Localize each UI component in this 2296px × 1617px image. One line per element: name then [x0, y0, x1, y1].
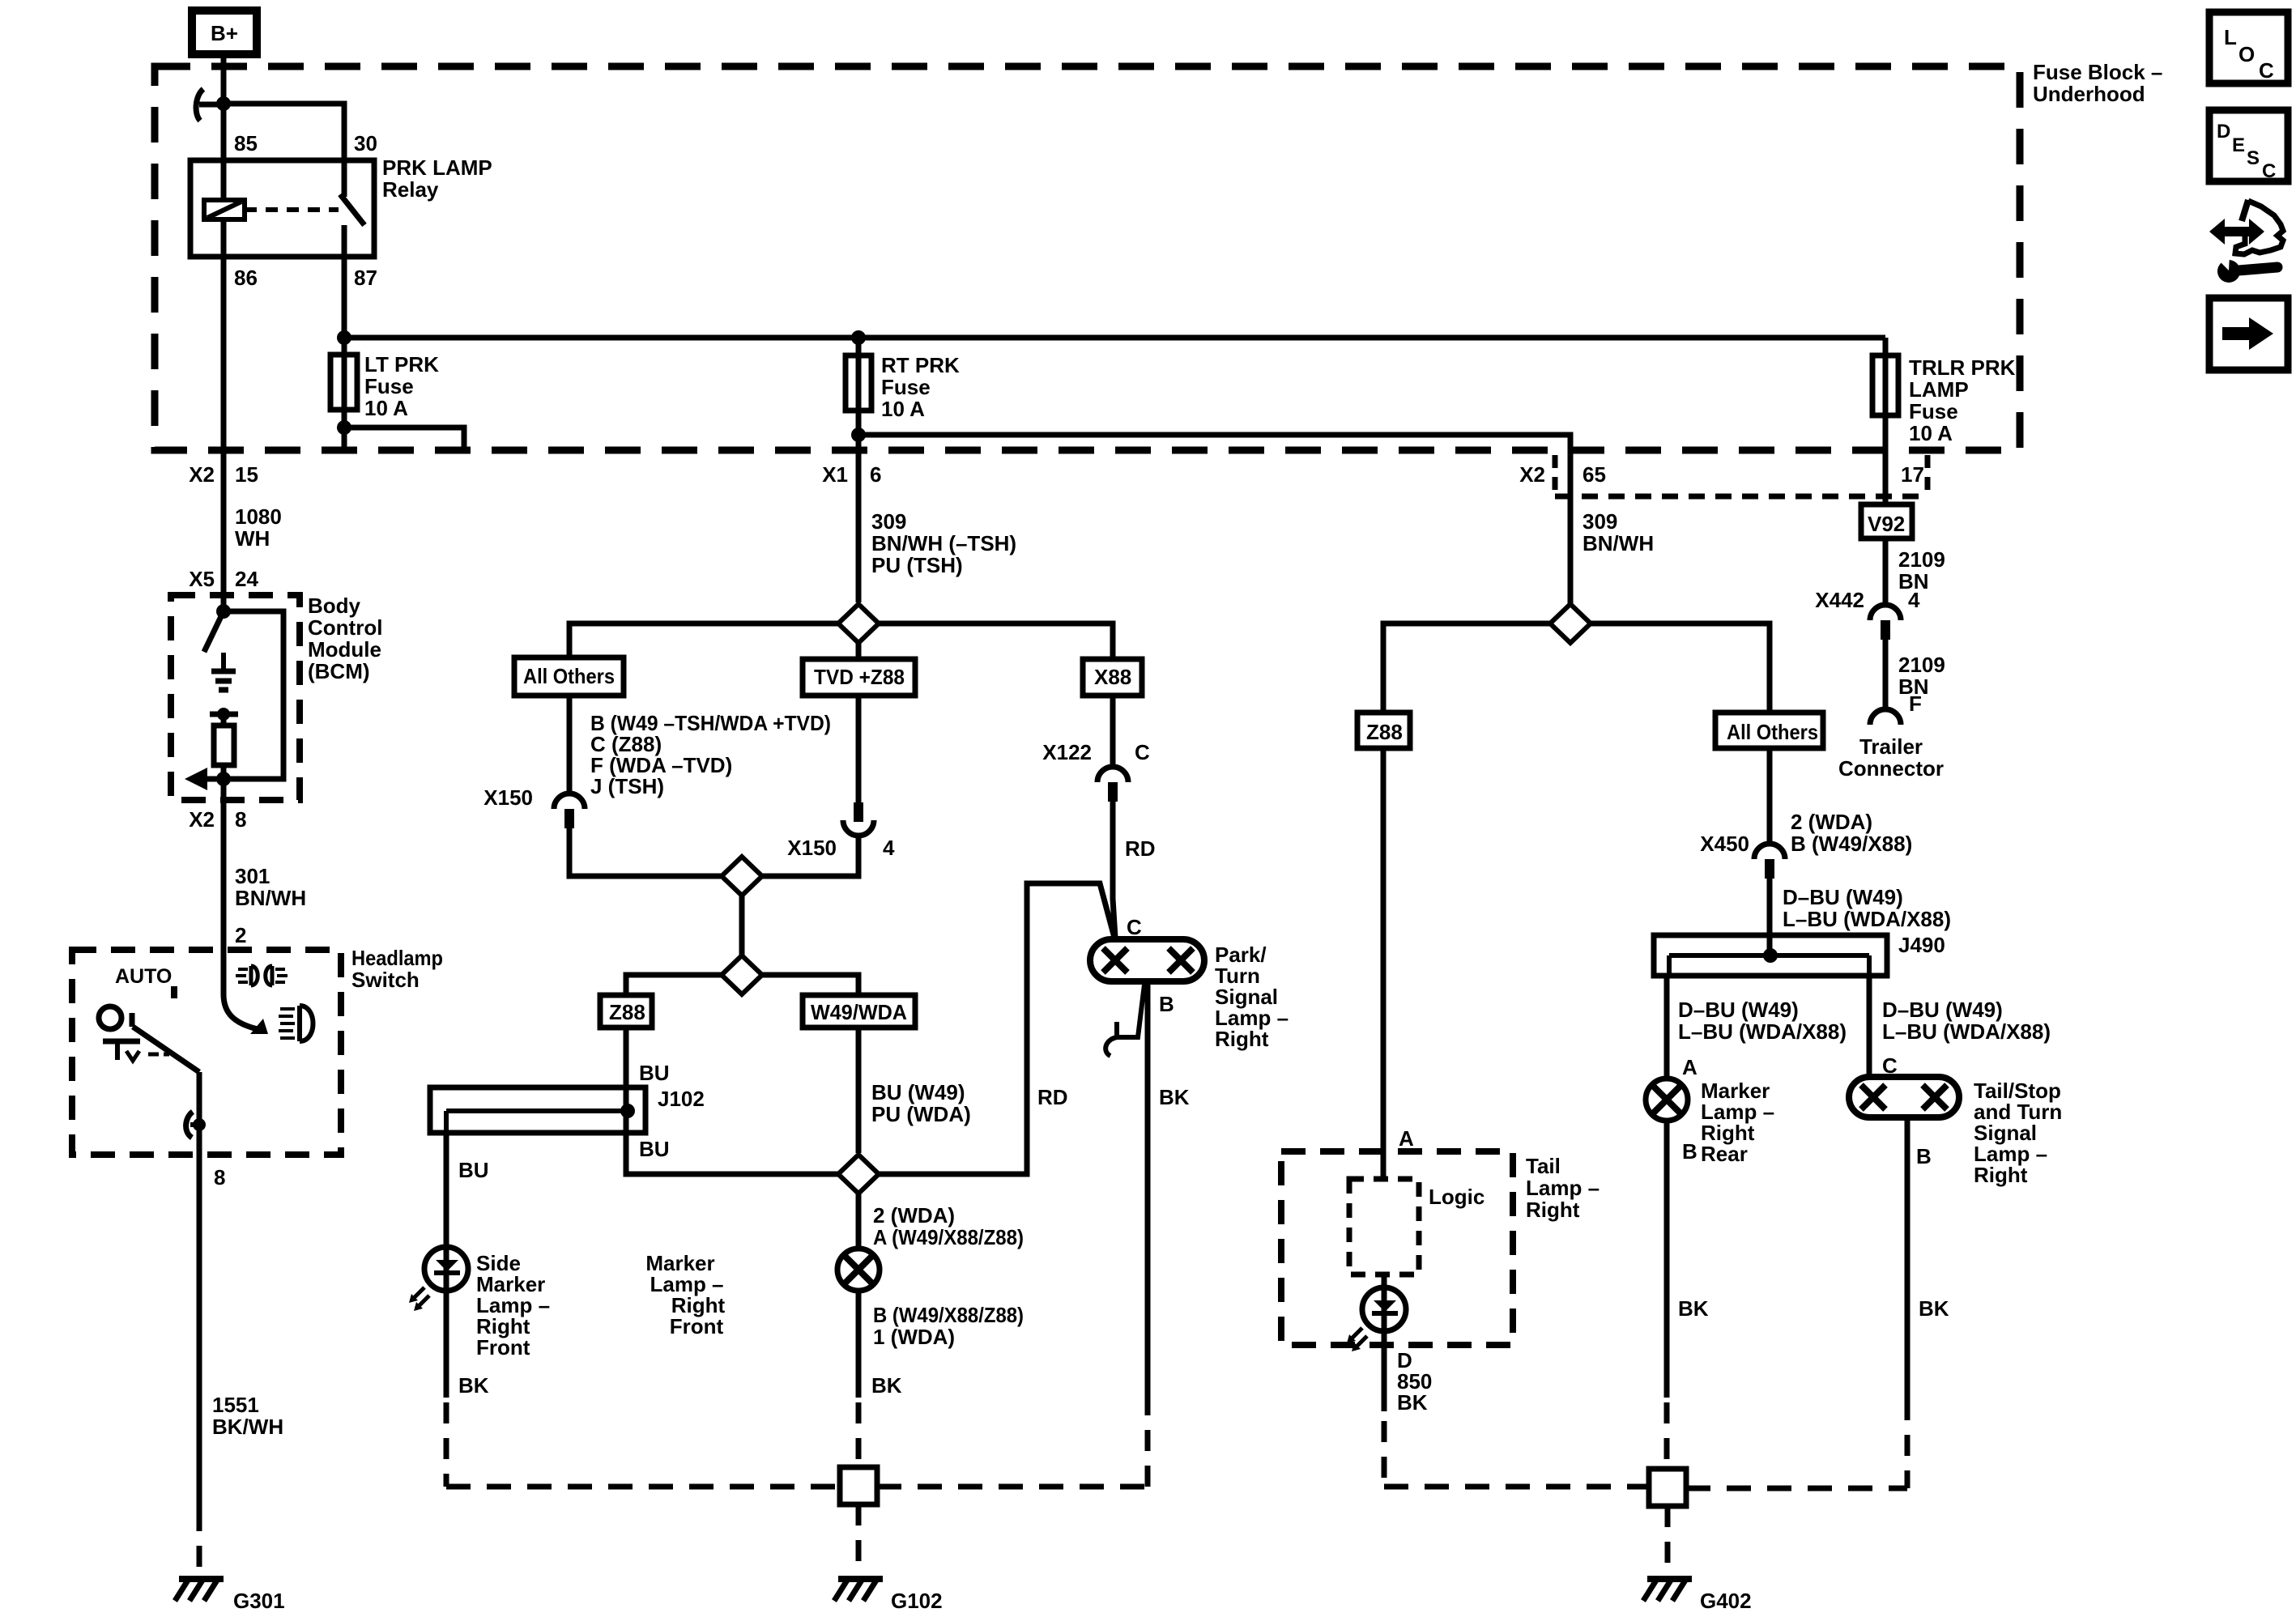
wire S4 to RD riser	[879, 883, 1114, 1174]
svg-text:Relay: Relay	[382, 177, 439, 202]
svg-text:Right: Right	[1215, 1027, 1269, 1051]
wire J102 right leg to S4	[626, 1133, 839, 1174]
park lamp feed bus wire	[344, 335, 1885, 341]
label RT PRK fuse	[881, 353, 960, 421]
fuse TRLR PRK LAMP 10A	[1872, 355, 1898, 415]
svg-text:S: S	[2247, 147, 2260, 169]
svg-text:LAMP: LAMP	[1909, 377, 1969, 402]
connector symbol on wiper wire	[186, 1112, 206, 1138]
svg-text:D: D	[2217, 121, 2230, 143]
relay contact switch	[340, 160, 364, 257]
BCM driver switch	[204, 611, 224, 652]
svg-text:24: 24	[235, 567, 258, 591]
wire J490 to tail/stop lamp	[1867, 976, 1872, 1077]
svg-text:Front: Front	[476, 1335, 530, 1360]
label D-BU L-BU above J490	[1783, 885, 1951, 931]
splice diamond S1	[838, 604, 879, 643]
svg-text:8: 8	[235, 807, 246, 832]
svg-text:D–BU (W49): D–BU (W49)	[1678, 998, 1799, 1022]
svg-text:D–BU (W49): D–BU (W49)	[1882, 998, 2003, 1022]
fuse LT PRK 10A	[330, 355, 357, 410]
icon box LOC	[2209, 12, 2288, 83]
wire X122 to lamp pin C	[1113, 802, 1115, 938]
svg-text:X2: X2	[1519, 462, 1545, 487]
BCM output arrow	[185, 768, 224, 790]
dashed wire marker rear to G402	[1664, 1402, 1670, 1469]
svg-text:RD: RD	[1037, 1085, 1068, 1109]
wire 309 to S5	[1568, 450, 1574, 604]
svg-text:1 (WDA): 1 (WDA)	[873, 1325, 955, 1349]
wire S1 to X88	[879, 623, 1113, 659]
splice pack J490	[1654, 933, 1945, 976]
headlamp icon	[279, 1006, 313, 1041]
svg-text:C: C	[2259, 58, 2274, 83]
AUTO position tick	[171, 986, 177, 998]
dome lamp icon	[103, 1041, 169, 1061]
svg-text:Switch: Switch	[351, 968, 420, 992]
wire S5 to All Others right	[1591, 623, 1770, 713]
svg-text:Fuse: Fuse	[1909, 399, 1958, 423]
svg-text:BK: BK	[1397, 1390, 1428, 1415]
OFF position circle	[99, 1006, 121, 1029]
relay coil-contact dashed link	[245, 207, 339, 212]
svg-text:J102: J102	[658, 1087, 705, 1111]
svg-text:RT PRK: RT PRK	[881, 353, 960, 377]
svg-text:Headlamp: Headlamp	[351, 946, 443, 970]
svg-text:BK: BK	[1678, 1296, 1709, 1321]
svg-text:W49/WDA: W49/WDA	[811, 1000, 907, 1024]
dashed wire below G102	[856, 1504, 862, 1576]
dashed wire tail/stop to ground bus	[1905, 1399, 1910, 1488]
fuse block underhood dashed box	[155, 66, 2020, 450]
svg-text:2: 2	[235, 923, 246, 947]
svg-text:6: 6	[870, 462, 881, 487]
marker lamp front bulb	[837, 1249, 880, 1291]
svg-text:85: 85	[234, 131, 258, 155]
svg-text:A (W49/X88/Z88): A (W49/X88/Z88)	[873, 1225, 1024, 1249]
branch box Z88	[600, 995, 652, 1028]
BCM internal loop wire	[224, 611, 283, 779]
svg-text:V92: V92	[1868, 512, 1905, 536]
svg-text:Fuse: Fuse	[881, 375, 931, 399]
label BU (W49) PU (WDA)	[871, 1080, 971, 1126]
wire V92 to X442	[1883, 538, 1889, 603]
svg-text:B: B	[1159, 992, 1174, 1016]
svg-text:Rear: Rear	[1701, 1142, 1748, 1166]
svg-text:L–BU (WDA/X88): L–BU (WDA/X88)	[1882, 1019, 2051, 1044]
svg-text:G102: G102	[891, 1589, 943, 1613]
splice diamond S5	[1550, 604, 1591, 643]
svg-text:Module: Module	[308, 637, 381, 662]
connector symbol on B+ wire	[199, 102, 224, 108]
tail/stop and turn signal lamp	[1849, 1077, 1959, 1117]
svg-text:X150: X150	[483, 785, 533, 810]
ground splice block G402	[1649, 1469, 1686, 1506]
park lamps icon	[236, 966, 288, 985]
ground G402	[1643, 1579, 1752, 1613]
svg-text:BK: BK	[458, 1373, 489, 1398]
label 2 (WDA) B (W49/X88)	[1791, 810, 1912, 856]
label Tail/Stop and Turn Signal Lamp Right	[1974, 1079, 2062, 1187]
connector X150 left	[483, 785, 585, 828]
wire S2 to S3	[739, 896, 745, 956]
branch box All Others	[514, 657, 624, 696]
label Marker Lamp Right Front	[645, 1251, 725, 1338]
svg-text:BU: BU	[639, 1061, 670, 1085]
label 2109 BN upper	[1898, 547, 1945, 594]
pin label X1 6	[822, 462, 881, 487]
wire X88 to X122	[1110, 696, 1116, 765]
svg-text:X150: X150	[787, 836, 837, 860]
svg-text:Z88: Z88	[1366, 720, 1403, 744]
label Park/Turn Signal Lamp Right	[1215, 943, 1289, 1051]
wire 1551 to ground	[197, 1155, 202, 1510]
svg-text:RD: RD	[1125, 836, 1156, 861]
dashed wire to G301	[197, 1510, 202, 1576]
svg-text:86: 86	[234, 266, 258, 290]
svg-text:Z88: Z88	[609, 1000, 645, 1024]
svg-text:BK: BK	[1159, 1085, 1190, 1109]
svg-text:Connector: Connector	[1838, 756, 1944, 781]
dashed wire below G402	[1665, 1506, 1671, 1576]
pin label X5 24	[189, 567, 258, 591]
relay PRK LAMP box	[190, 160, 374, 257]
lamp pigtail clip	[1105, 985, 1144, 1056]
svg-text:BU: BU	[458, 1158, 489, 1182]
wire X442 to trailer connector	[1883, 640, 1889, 709]
tail lamp LED symbol	[1347, 1274, 1406, 1351]
svg-text:Lamp –: Lamp –	[1526, 1176, 1600, 1200]
wire All Others to X150	[567, 696, 573, 792]
wire through RT PRK fuse	[856, 338, 862, 602]
connector X122	[1042, 740, 1150, 802]
svg-text:BN/WH (–TSH): BN/WH (–TSH)	[871, 531, 1016, 555]
wire W49/WDA to S4	[856, 1028, 862, 1153]
wire TRLR fuse feed	[1883, 338, 1889, 504]
svg-text:BU: BU	[639, 1137, 670, 1161]
svg-text:X442: X442	[1815, 588, 1864, 612]
node junction at relay coil feed	[216, 96, 231, 111]
svg-text:PRK LAMP: PRK LAMP	[382, 155, 492, 180]
wire TVD to X150-4	[856, 696, 862, 802]
svg-text:309: 309	[871, 509, 906, 534]
svg-text:All Others: All Others	[1727, 720, 1818, 744]
connector box V92	[1861, 504, 1912, 538]
label Marker Lamp Right Rear	[1701, 1079, 1774, 1166]
switch input wire curving to park position	[224, 950, 258, 1029]
svg-text:Control: Control	[308, 615, 382, 640]
BCM sense resistor	[210, 708, 238, 779]
pin label X2 65	[1519, 462, 1606, 487]
svg-text:10 A: 10 A	[1909, 421, 1953, 445]
connector X450	[1700, 832, 1785, 879]
wire All Others right to X450	[1767, 748, 1773, 842]
wire tail lamp LED down	[1382, 1289, 1387, 1411]
label Tail Lamp Right	[1526, 1154, 1600, 1222]
svg-text:Tail: Tail	[1526, 1154, 1561, 1178]
wire Z88 to J102	[624, 1028, 629, 1087]
wire pin 17 to V92	[1883, 450, 1889, 504]
side marker lamp LED symbol	[409, 1247, 468, 1311]
wire relay 86 to BCM	[221, 257, 227, 611]
label PRK LAMP Relay	[382, 155, 492, 202]
icon car diagnosis with wrench	[2209, 200, 2283, 283]
wire through LT PRK fuse	[342, 338, 347, 450]
pin label X2 15	[189, 462, 258, 487]
switch wiper	[133, 1027, 199, 1072]
pin label X2 8	[189, 807, 246, 832]
wire 1080 WH label	[235, 504, 282, 551]
label B (W49/X88/Z88) 1 (WDA)	[873, 1303, 1024, 1349]
label D-BU L-BU right	[1882, 998, 2051, 1044]
svg-text:X122: X122	[1042, 740, 1092, 764]
svg-text:TRLR PRK: TRLR PRK	[1909, 355, 2016, 380]
branch box TVD +Z88	[803, 659, 915, 696]
svg-text:PU (TSH): PU (TSH)	[871, 553, 963, 577]
svg-text:4: 4	[883, 836, 895, 860]
wire 1551 BK/WH label	[212, 1393, 283, 1439]
svg-text:AUTO: AUTO	[115, 965, 172, 988]
svg-text:2 (WDA): 2 (WDA)	[873, 1203, 955, 1228]
branch box Z88 right	[1357, 713, 1410, 748]
svg-text:BU (W49): BU (W49)	[871, 1080, 965, 1104]
svg-text:A: A	[1399, 1126, 1414, 1151]
svg-text:Fuse: Fuse	[364, 374, 414, 398]
wire BCM to headlamp switch	[221, 779, 227, 950]
node BCM input	[216, 604, 231, 619]
dashed ground bus to G402	[1384, 1484, 1649, 1490]
svg-text:BK/WH: BK/WH	[212, 1415, 283, 1439]
svg-text:Fuse Block –: Fuse Block –	[2033, 60, 2162, 84]
OFF position tick	[130, 1013, 135, 1027]
label TRLR PRK LAMP fuse	[1909, 355, 2016, 445]
label 2109 BN lower	[1898, 653, 1945, 699]
icon box arrow	[2209, 298, 2288, 370]
svg-text:10 A: 10 A	[881, 397, 925, 421]
wire park/turn B BK	[1145, 981, 1151, 1399]
label Side Marker Lamp Right Front	[476, 1251, 550, 1360]
wire marker rear BK	[1664, 1121, 1670, 1398]
svg-text:2 (WDA): 2 (WDA)	[1791, 810, 1872, 834]
ground G102	[834, 1579, 943, 1613]
node at 87 feed	[337, 330, 351, 345]
svg-text:301: 301	[235, 864, 270, 888]
trailer connector symbol	[1870, 709, 1901, 725]
label Trailer Connector	[1838, 734, 1944, 781]
branch box All Others right	[1715, 713, 1823, 748]
svg-text:J (TSH): J (TSH)	[590, 774, 664, 798]
svg-text:17: 17	[1901, 462, 1924, 487]
svg-text:BK: BK	[1919, 1296, 1949, 1321]
wire J102 to side marker lamp	[444, 1133, 449, 1249]
svg-text:X450: X450	[1700, 832, 1749, 856]
splice diamond S4	[838, 1155, 879, 1194]
icon box DESC	[2209, 110, 2288, 182]
wire marker front BK	[856, 1291, 862, 1398]
svg-text:X1: X1	[822, 462, 848, 487]
wire S4 to marker lamp front	[856, 1194, 862, 1251]
svg-text:WH: WH	[235, 526, 270, 551]
wire X450 to J490	[1767, 879, 1773, 955]
splice diamond S2	[722, 857, 762, 896]
wire to relay pin 85	[221, 104, 227, 200]
svg-text:B: B	[1682, 1139, 1698, 1164]
BCM internal ground	[211, 653, 236, 690]
svg-text:Trailer: Trailer	[1859, 734, 1923, 759]
svg-text:L–BU (WDA/X88): L–BU (WDA/X88)	[1783, 907, 1951, 931]
svg-text:B (W49/X88/Z88): B (W49/X88/Z88)	[873, 1303, 1024, 1327]
svg-text:(BCM): (BCM)	[308, 659, 370, 683]
splice diamond S3	[722, 955, 762, 994]
relay pin labels	[234, 131, 377, 290]
wire X150-4 to S2	[763, 836, 858, 876]
marker lamp rear bulb	[1646, 1079, 1688, 1121]
wire S1 to All Others	[569, 623, 838, 657]
svg-text:BK: BK	[871, 1373, 902, 1398]
svg-text:1551: 1551	[212, 1393, 259, 1417]
BCM output node	[216, 772, 231, 786]
node below RT fuse	[851, 428, 866, 442]
wire tail/stop B BK	[1905, 1117, 1910, 1399]
dashed ground bus right of G102	[877, 1484, 1148, 1490]
wire X150 left to S2	[569, 828, 721, 876]
label Body Control Module (BCM)	[308, 594, 382, 683]
svg-text:B: B	[1916, 1144, 1932, 1168]
svg-text:8: 8	[214, 1165, 225, 1189]
svg-text:Underhood: Underhood	[2033, 82, 2145, 106]
arrowhead on switch wire	[250, 1019, 268, 1034]
svg-text:30: 30	[354, 131, 377, 155]
dashed wire marker front to G102	[856, 1402, 862, 1467]
svg-text:D–BU (W49): D–BU (W49)	[1783, 885, 1903, 909]
label Fuse Block - Underhood	[2033, 60, 2162, 106]
dashed wire side marker to G102	[444, 1402, 449, 1487]
svg-text:BN/WH: BN/WH	[235, 886, 306, 910]
connector X150 pin 4	[787, 802, 895, 860]
dashed wire logic to ground bus	[1382, 1421, 1387, 1487]
svg-text:G402: G402	[1700, 1589, 1752, 1613]
wire to relay pin 30	[224, 104, 344, 160]
wire wiper down	[197, 1072, 202, 1155]
svg-text:1080: 1080	[235, 504, 282, 529]
label 309 BN/WH right	[1582, 509, 1654, 555]
BCM dashed box	[171, 595, 300, 800]
node below LT fuse	[337, 420, 351, 435]
label D 850 BK	[1397, 1348, 1432, 1415]
svg-text:LT PRK: LT PRK	[364, 352, 439, 377]
svg-text:BN/WH: BN/WH	[1582, 531, 1654, 555]
wire B+ feed	[221, 54, 227, 104]
label Headlamp Switch	[351, 946, 443, 992]
svg-text:X2: X2	[189, 462, 215, 487]
svg-text:L: L	[2224, 25, 2237, 49]
svg-text:Body: Body	[308, 594, 361, 618]
branch box W49/WDA	[803, 995, 915, 1028]
wire S3 to Z88	[626, 975, 722, 995]
label D-BU L-BU left	[1678, 998, 1847, 1044]
svg-text:PU (WDA): PU (WDA)	[871, 1102, 971, 1126]
svg-text:L–BU (WDA/X88): L–BU (WDA/X88)	[1678, 1019, 1847, 1044]
svg-text:G301: G301	[233, 1589, 285, 1613]
svg-text:X88: X88	[1094, 665, 1131, 689]
svg-text:F: F	[1909, 691, 1922, 716]
ground G301	[175, 1579, 285, 1613]
wire relay 87 output	[342, 257, 347, 338]
svg-text:X5: X5	[189, 567, 215, 591]
ground splice block G102	[840, 1467, 877, 1504]
wire 301 BN/WH label	[235, 864, 306, 910]
node at RT PRK fuse top	[851, 330, 866, 345]
dashed ground bus right of G402	[1686, 1486, 1907, 1491]
wire stub to other circuits	[344, 428, 464, 450]
svg-text:Front: Front	[670, 1314, 724, 1338]
wire RT fuse to pin 65	[858, 435, 1570, 450]
svg-text:C: C	[2262, 160, 2276, 182]
dashed wire park/turn BK riser	[1145, 1399, 1151, 1487]
svg-text:B+: B+	[211, 21, 238, 45]
logic module dashed box	[1349, 1179, 1419, 1274]
svg-text:Right: Right	[1974, 1163, 2028, 1187]
svg-text:2109: 2109	[1898, 653, 1945, 677]
wire 309 BN/WH label (center)	[871, 509, 1016, 577]
svg-text:87: 87	[354, 266, 377, 290]
park/turn signal lamp right	[1090, 939, 1204, 981]
svg-text:C: C	[1135, 740, 1150, 764]
wire Z88 right to tail lamp	[1381, 748, 1387, 1179]
svg-text:65: 65	[1582, 462, 1606, 487]
fuse RT PRK 10A	[846, 355, 871, 411]
svg-text:X2: X2	[189, 807, 215, 832]
svg-text:All Others: All Others	[523, 664, 615, 688]
svg-text:J490: J490	[1898, 933, 1945, 957]
dashed ground bus left	[446, 1484, 840, 1490]
wire S5 to Z88 right	[1383, 623, 1550, 713]
connector X442 pin 4	[1815, 588, 1920, 640]
svg-text:E: E	[2232, 134, 2245, 156]
label 2 (WDA) A (W49/X88/Z88)	[873, 1203, 1024, 1249]
pin list label B/C/F/J	[590, 711, 831, 798]
svg-text:O: O	[2238, 42, 2255, 66]
svg-text:Right: Right	[1526, 1198, 1580, 1222]
svg-text:15: 15	[235, 462, 258, 487]
svg-text:4: 4	[1908, 588, 1920, 612]
svg-text:B (W49/X88): B (W49/X88)	[1791, 832, 1912, 856]
splice pack J102	[430, 1087, 705, 1133]
tail lamp right dashed box	[1281, 1151, 1513, 1345]
branch box X88	[1083, 659, 1142, 696]
svg-text:309: 309	[1582, 509, 1617, 534]
headlamp switch dashed box	[72, 950, 341, 1155]
battery B+ terminal	[192, 11, 257, 54]
dashed connector pocket X2/17	[1555, 455, 1928, 496]
svg-text:10 A: 10 A	[364, 396, 408, 420]
svg-text:Logic: Logic	[1429, 1185, 1485, 1209]
svg-text:2109: 2109	[1898, 547, 1945, 572]
wire S1 to TVD	[856, 643, 862, 659]
wire S3 to W49/WDA	[762, 975, 858, 995]
wire side marker BK	[444, 1290, 449, 1398]
wire J490 to marker lamp rear	[1664, 976, 1670, 1079]
svg-text:A: A	[1682, 1055, 1698, 1079]
relay coil	[204, 200, 245, 257]
label LT PRK fuse	[364, 352, 439, 420]
svg-text:C: C	[1127, 915, 1142, 939]
svg-text:TVD +Z88: TVD +Z88	[814, 665, 905, 689]
